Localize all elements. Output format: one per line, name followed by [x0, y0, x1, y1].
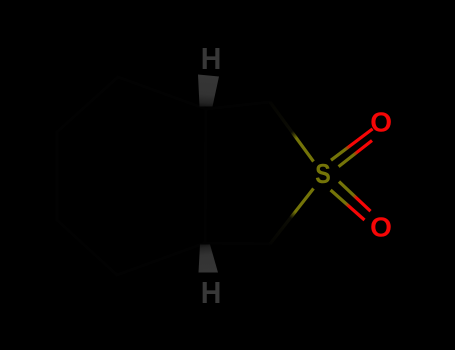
- svg-text:H: H: [201, 42, 222, 76]
- svg-text:O: O: [370, 107, 392, 138]
- svg-text:H: H: [201, 276, 222, 310]
- svg-text:S: S: [315, 159, 331, 189]
- svg-text:O: O: [370, 212, 392, 243]
